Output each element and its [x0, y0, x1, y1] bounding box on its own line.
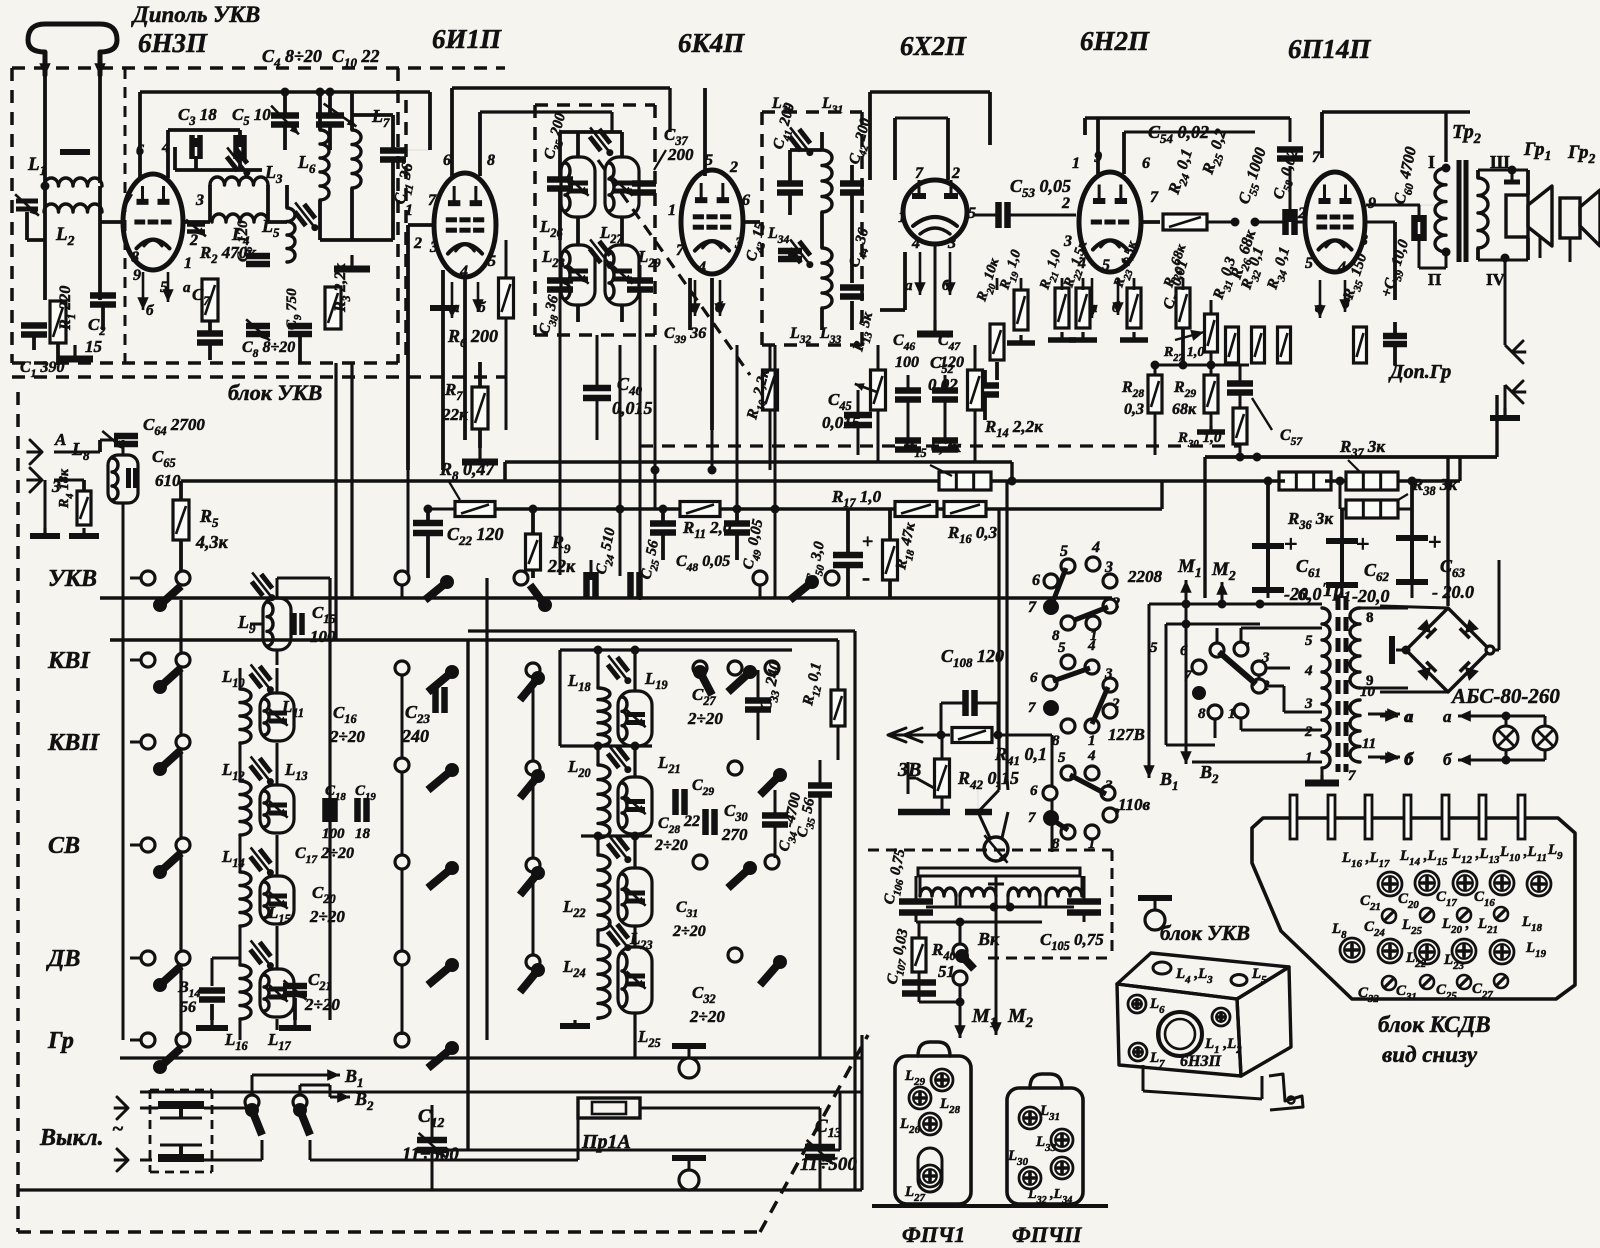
svg-text:2÷20: 2÷20	[329, 727, 365, 746]
Tr1 primary winding	[1322, 608, 1330, 768]
band switch left contact 2	[176, 838, 190, 852]
power plug dashed box	[150, 1089, 212, 1092]
wires to transformer	[1419, 204, 1446, 206]
cap C29 22	[672, 789, 679, 815]
wires L9	[276, 578, 279, 598]
bus y1150	[415, 1149, 840, 1152]
cathode arrows 6N2P	[1091, 278, 1094, 318]
svg-text:7: 7	[915, 165, 924, 182]
resistor R30 1.0	[1233, 408, 1247, 444]
UKV block dashed box	[12, 66, 505, 70]
cap C5 10	[233, 135, 239, 159]
svg-text:1: 1	[668, 202, 676, 219]
cap C10 22	[316, 112, 344, 119]
UKV screw 2	[1212, 1008, 1230, 1026]
svg-text:УКВ: УКВ	[48, 566, 97, 592]
bus y462	[505, 460, 1012, 463]
svg-text:8: 8	[1052, 836, 1060, 852]
selector group2 lever	[1053, 668, 1090, 681]
V1 arrow	[1148, 768, 1151, 778]
wire	[903, 252, 907, 310]
IF transformer dashed box	[535, 103, 655, 107]
svg-text:22к: 22к	[441, 405, 468, 424]
UKV box bracket	[1269, 1074, 1303, 1110]
selector group3 lever	[1070, 775, 1106, 794]
coil L18	[598, 688, 610, 746]
coil L19 box	[618, 691, 652, 746]
coil L28 box	[561, 245, 595, 305]
KSDV small screws row2	[1382, 976, 1396, 990]
wire box around C3 C5	[194, 138, 198, 147]
ground under L24	[573, 1020, 576, 1026]
6I1P top wires	[450, 88, 454, 176]
wire	[43, 186, 47, 212]
cap C63 electrolytic	[1410, 538, 1414, 582]
cap C15 100	[291, 613, 297, 635]
svg-text:200: 200	[667, 145, 694, 164]
cap C106 0.75	[899, 898, 933, 905]
UKV box front face	[1117, 984, 1241, 1076]
ground	[73, 345, 76, 359]
band switch left contact	[141, 571, 155, 585]
UKV box hole L4 L3	[1153, 962, 1171, 974]
svg-text:9: 9	[133, 267, 141, 284]
Tr2 core	[1457, 160, 1462, 262]
svg-text:5: 5	[1058, 750, 1066, 766]
wires down from UKV block	[334, 363, 337, 640]
svg-text:2÷20: 2÷20	[687, 709, 723, 728]
plug contact bottom	[158, 1154, 204, 1162]
wire bottom to winding1	[1192, 761, 1322, 764]
svg-text:Пр1А: Пр1А	[581, 1131, 631, 1153]
switch group row1 right	[753, 571, 767, 585]
svg-text:4: 4	[911, 235, 920, 252]
arrow out a left	[1380, 715, 1398, 718]
coil L1	[44, 178, 102, 186]
svg-text:7: 7	[676, 242, 685, 259]
cap C107 0.03	[902, 979, 936, 986]
fuse wires	[204, 1107, 252, 1110]
trimmer between L_14	[250, 849, 271, 871]
svg-text:3: 3	[734, 235, 743, 252]
cap C59	[1383, 333, 1407, 340]
cap C64 2700	[100, 439, 118, 442]
UKV box foot	[1142, 1065, 1145, 1091]
cap C105 0.75	[1067, 898, 1101, 905]
resistor R7 22k	[472, 387, 488, 429]
coil L_16	[240, 965, 251, 1019]
IF1 frame wires	[558, 132, 562, 179]
svg-text:2÷20: 2÷20	[654, 837, 688, 854]
band switch left lever	[160, 853, 181, 872]
svg-text:1: 1	[898, 209, 906, 226]
cap C2 15	[90, 292, 116, 299]
wire left bus to rows	[130, 577, 141, 580]
trimmer L18	[608, 657, 629, 679]
svg-text:240: 240	[401, 726, 429, 746]
cap C30 270	[702, 809, 709, 835]
svg-text:100: 100	[322, 826, 345, 842]
bridge right wire	[1490, 649, 1499, 652]
bus R28 R29 tops	[1155, 364, 1249, 367]
coil L9	[263, 598, 291, 650]
wire	[320, 238, 393, 242]
vertical x840	[839, 1092, 842, 1150]
Tr1 secondary 10-11	[1350, 700, 1360, 762]
cap C48 0.05	[650, 520, 676, 527]
coil L26 box	[561, 157, 595, 217]
bus y509 through R8	[428, 508, 455, 511]
svg-text:10: 10	[1360, 684, 1376, 700]
chassis dashed border left	[16, 392, 20, 1232]
svg-text:7: 7	[124, 192, 133, 209]
wire A	[54, 451, 100, 454]
FPCh1 slot	[918, 1148, 942, 1192]
top bus wire	[140, 90, 430, 93]
wires left coil bank	[239, 743, 242, 781]
M2 arrow	[995, 884, 998, 900]
verticals 6K4P down	[711, 430, 714, 470]
core bar	[60, 149, 90, 155]
svg-text:Выкл.: Выкл.	[39, 1125, 104, 1151]
svg-text:+: +	[1284, 532, 1298, 558]
bus y1058	[120, 1056, 862, 1059]
coil L_11	[260, 693, 294, 741]
coil L_10	[240, 689, 251, 743]
svg-text:4: 4	[1087, 748, 1096, 764]
svg-text:7: 7	[1028, 700, 1036, 716]
svg-text:СВ: СВ	[48, 833, 80, 859]
resistor R28 0.3	[1148, 375, 1162, 413]
grid wire 6P14P	[1364, 221, 1395, 224]
svg-text:2: 2	[1061, 195, 1070, 212]
svg-text:б.: б.	[1298, 587, 1310, 604]
right switches mid coils	[728, 661, 742, 675]
trimmer L6	[295, 204, 316, 226]
wires mid switches	[401, 675, 404, 758]
svg-text:~: ~	[112, 1118, 123, 1140]
svg-text:ДВ: ДВ	[46, 946, 80, 972]
cap C58 0.02	[1282, 209, 1289, 235]
svg-text:7: 7	[1028, 810, 1036, 826]
svg-text:2÷20: 2÷20	[304, 995, 340, 1014]
ground	[350, 255, 353, 269]
switch row6 mid	[395, 1033, 409, 1047]
svg-text:2: 2	[1304, 724, 1313, 740]
svg-text:4,3к: 4,3к	[195, 532, 229, 552]
cathode arrows 6X2P	[919, 252, 922, 295]
Tr1 ground	[1321, 768, 1324, 775]
UKV screw 1	[1128, 995, 1146, 1013]
verticals from IF area down	[619, 345, 622, 576]
svg-text:4: 4	[459, 263, 468, 280]
svg-text:а: а	[1404, 707, 1413, 726]
plug forks	[117, 1097, 128, 1119]
wire	[208, 185, 212, 222]
antenna Z fork	[30, 468, 42, 492]
Tr1 core	[1336, 596, 1341, 772]
M1 arrow	[919, 1001, 960, 1004]
coil L5	[287, 208, 295, 262]
6N2P top wires	[1096, 118, 1100, 174]
FPCh1 screws	[931, 1069, 953, 1091]
svg-text:8: 8	[487, 152, 495, 169]
cathode arrows	[142, 272, 145, 310]
dipole lead arrows	[44, 58, 47, 76]
tube 6N2P envelope	[1079, 172, 1141, 272]
svg-text:1: 1	[1088, 836, 1096, 852]
svg-text:0,015: 0,015	[612, 398, 653, 418]
resistor R4 18k	[77, 491, 91, 525]
svg-text:100: 100	[895, 354, 919, 371]
cathode arrows 6I1P	[451, 282, 454, 318]
bridge bottom wire	[1380, 691, 1448, 694]
tube 6X2P envelope	[903, 180, 967, 244]
pot dashed box	[868, 849, 1112, 852]
mid vertical bus x468	[466, 640, 469, 1150]
vertical 1448 to bridge	[1446, 457, 1449, 606]
svg-text:15: 15	[85, 337, 103, 356]
bridge diodes	[1417, 619, 1436, 638]
cap C41 200	[777, 180, 803, 187]
IF2 wires	[788, 150, 792, 183]
wire L8 down	[122, 503, 125, 578]
chassis sign 3	[672, 1155, 706, 1161]
svg-text:- 20.0: - 20.0	[1432, 582, 1474, 602]
svg-text:7: 7	[1150, 189, 1159, 206]
gang dashed diagonal	[598, 160, 750, 375]
svg-text:-: -	[862, 565, 870, 591]
svg-text:5: 5	[968, 205, 976, 222]
dop gr forks	[1504, 330, 1507, 345]
wires resistor row	[996, 278, 999, 290]
selector group1 lever	[1052, 568, 1066, 604]
svg-text:8: 8	[131, 249, 139, 266]
switch row2 mid	[395, 661, 409, 675]
pot coil stubs	[919, 876, 922, 896]
trimmer cap left	[16, 199, 38, 204]
switch Vykl 1	[245, 1095, 259, 1109]
resistor R29 68k	[1204, 375, 1218, 413]
mid vertical bus x487	[485, 578, 488, 1040]
resistor R5 4.3k	[173, 500, 189, 540]
svg-text:2÷20: 2÷20	[689, 1007, 725, 1026]
svg-text:5: 5	[1060, 543, 1068, 560]
switch group row1 mid	[395, 571, 409, 585]
svg-text:1: 1	[184, 255, 192, 272]
svg-text:5: 5	[488, 253, 496, 270]
tube 6K4P envelope	[681, 170, 743, 274]
bus y481 extension	[505, 479, 920, 482]
svg-text:вид снизу: вид снизу	[1382, 1042, 1478, 1067]
wire L8 top	[122, 440, 125, 455]
6K4P top wire	[703, 88, 707, 176]
switch row4 mid	[395, 855, 409, 869]
svg-text:6: 6	[1030, 670, 1038, 686]
top wire 6P14P	[1320, 112, 1324, 158]
tap 10 arrow a	[1368, 713, 1400, 716]
bus x330 vertical	[328, 578, 331, 1020]
band switch left contact	[141, 1033, 155, 1047]
svg-text:18: 18	[355, 826, 371, 842]
trimmer on L3	[227, 149, 248, 171]
main bus wire y481 left	[181, 479, 505, 483]
svg-text:2: 2	[189, 232, 198, 249]
resistor R18 47k	[883, 540, 898, 580]
Tr1 taps	[1290, 627, 1322, 630]
pot leads up	[978, 812, 990, 838]
wires Vykl	[251, 1075, 254, 1095]
cap C37 200	[632, 180, 656, 187]
svg-text:6: 6	[742, 192, 750, 209]
bridge top wire	[1380, 606, 1448, 608]
resistor R8 0.47	[455, 502, 495, 517]
resistor R36 3k	[1279, 472, 1331, 490]
svg-text:22: 22	[683, 813, 700, 830]
cap C43 15	[778, 248, 802, 255]
svg-text:127В: 127В	[1108, 725, 1145, 744]
wire	[43, 212, 47, 300]
resistors under 6P14P	[1226, 327, 1239, 363]
fuse Pr1A	[578, 1098, 640, 1118]
row1 wires	[401, 585, 404, 598]
svg-text:7: 7	[1312, 149, 1321, 166]
svg-text:6П14П: 6П14П	[1288, 34, 1372, 64]
svg-text:-20,0: -20,0	[1352, 586, 1390, 606]
UKV box hole L5	[1231, 975, 1247, 986]
svg-text:4: 4	[1091, 539, 1100, 556]
wire dipole feeders	[43, 76, 47, 183]
wires L6 L7 frame	[318, 92, 322, 130]
UKV lens	[1158, 1012, 1202, 1056]
svg-text:68к: 68к	[1172, 401, 1197, 418]
trimmer IF1a	[590, 129, 611, 151]
selector group3 lever3	[1053, 820, 1068, 830]
grid wire right	[1141, 220, 1160, 224]
FPCh baseline	[872, 1204, 1108, 1208]
svg-text:ФПЧ1: ФПЧ1	[902, 1222, 965, 1247]
Tr1 secondary 8-9	[1350, 608, 1360, 688]
mid box top wire	[560, 648, 792, 651]
switch row5 mid	[395, 951, 409, 965]
svg-text:a: a	[183, 280, 191, 296]
ground bar 6I1P	[430, 305, 456, 311]
svg-text:б: б	[146, 303, 154, 319]
pot mid wires	[926, 906, 1074, 909]
svg-text:610: 610	[155, 471, 181, 490]
wires mid coils	[596, 746, 599, 765]
coil L25 box	[618, 947, 652, 1013]
coil L6	[320, 130, 329, 200]
Tr2 secondary	[1478, 178, 1488, 248]
volume pot circle	[984, 837, 1008, 861]
svg-text:1: 1	[405, 202, 413, 219]
band switch left contact	[141, 735, 155, 749]
dop gr ground	[1503, 408, 1506, 418]
svg-text:а: а	[1443, 707, 1452, 726]
variable cap C4 8-20	[271, 112, 299, 119]
cap C42 200	[840, 180, 864, 187]
resistor R41 0.1	[952, 728, 992, 743]
svg-text:6: 6	[1032, 572, 1040, 589]
selector group2 lever2	[1092, 687, 1108, 724]
cap C39 36	[627, 277, 653, 284]
svg-text:5: 5	[1305, 633, 1313, 649]
IF2 dashed box	[762, 110, 862, 114]
cap C52 0.02	[971, 382, 999, 389]
UKV box right face	[1237, 967, 1291, 1076]
trimmer L20	[608, 746, 629, 768]
bus y640	[110, 638, 838, 641]
6I1P grid wire	[408, 223, 434, 227]
svg-text:3: 3	[1063, 233, 1072, 250]
left bus vertical x181	[179, 600, 182, 1040]
svg-text:3: 3	[195, 192, 204, 209]
trimmer IF2	[790, 129, 811, 151]
svg-text:6И1П: 6И1П	[432, 24, 502, 54]
trimmer between L_10	[250, 666, 271, 688]
wires R15 R16	[991, 479, 1012, 482]
resistor R2 470k	[202, 279, 218, 321]
FPCh1 box	[895, 1056, 971, 1204]
svg-text:7: 7	[1184, 668, 1192, 684]
resistor R17	[895, 502, 937, 517]
junction dots	[281, 88, 290, 97]
switch row4 right	[693, 855, 707, 869]
cap C35 200	[547, 176, 573, 183]
bridge left terminal	[1396, 649, 1406, 652]
KSDV screws row2	[1340, 938, 1364, 962]
cap C65 610	[126, 468, 131, 488]
wire	[268, 220, 287, 224]
anode wire to Tr2	[1366, 204, 1420, 207]
resistor R38 3k	[1346, 500, 1398, 518]
svg-text:7: 7	[1028, 599, 1037, 616]
band switch left contact	[141, 951, 155, 965]
resistor R24 0.1	[1163, 214, 1207, 230]
cap C44 36	[840, 284, 864, 291]
FPCh2 box	[1007, 1088, 1083, 1204]
svg-text:+: +	[1356, 532, 1370, 558]
chassis dashed border bottom	[18, 1230, 760, 1234]
svg-text:6НЗП: 6НЗП	[1180, 1053, 1222, 1070]
svg-text:3: 3	[1304, 696, 1313, 712]
coil L20	[598, 765, 610, 838]
coil L31	[822, 248, 832, 308]
dashed line amp bottom	[640, 444, 1240, 447]
svg-text:2: 2	[729, 159, 738, 176]
trimmer L22	[608, 836, 629, 858]
gr wires	[1539, 237, 1542, 258]
wire pins down	[441, 270, 445, 470]
svg-text:270: 270	[721, 825, 748, 844]
svg-text:4: 4	[1337, 259, 1346, 276]
band switch left contact	[141, 838, 155, 852]
V2 arrow	[1185, 608, 1188, 764]
selector group1 lever2	[1072, 607, 1108, 621]
chassis sign 1	[672, 1043, 706, 1049]
cap C6 120	[246, 253, 270, 260]
svg-text:1: 1	[1072, 155, 1080, 172]
wire to transformer top	[1260, 603, 1322, 606]
wires caps 61-63	[1266, 481, 1270, 546]
svg-text:6Н2П: 6Н2П	[1080, 26, 1150, 56]
band switch left contact 2	[176, 951, 190, 965]
cap C25 56	[627, 572, 634, 598]
switch Vk	[953, 944, 967, 958]
wire top to Tr2	[1444, 112, 1447, 162]
cathode arrows 6P14P	[1319, 280, 1322, 318]
